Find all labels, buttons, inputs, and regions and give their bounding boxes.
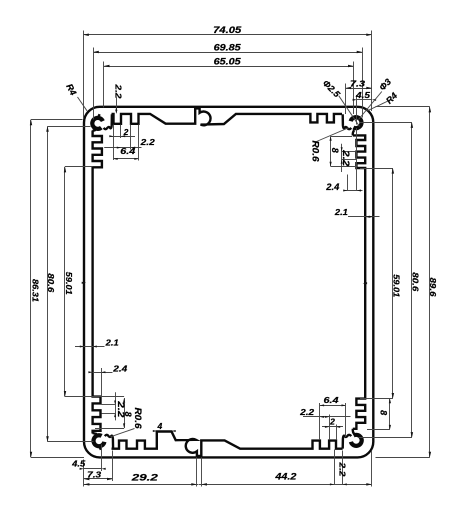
ext 74.05/7.3/4.5 right	[371, 31, 373, 112]
ext 2.2 BL a	[102, 404, 116, 406]
boss TR tail jaw	[343, 114, 352, 129]
dim line 59.01 left	[64, 167, 66, 397]
ext TL tooth1 left	[113, 125, 115, 161]
ext 2.4 right b (boss centre)	[356, 128, 358, 191]
dim line 2.2 BL	[115, 392, 117, 420]
svg-text:6.4: 6.4	[120, 146, 135, 156]
boss BR neck	[353, 429, 355, 434]
boss TR neck	[353, 130, 355, 135]
dim line 8 TR	[330, 136, 332, 166]
dim line 74.05	[83, 34, 372, 36]
ext 2.2 BL b	[102, 413, 116, 415]
screw boss bottom-right (ring)	[351, 435, 362, 446]
svg-text:80.6: 80.6	[46, 273, 56, 292]
svg-text:65.05: 65.05	[214, 57, 242, 68]
ext 80.6 left bottom	[48, 441, 94, 443]
svg-text:8: 8	[330, 148, 340, 153]
ext 65.05 right	[353, 62, 355, 115]
ext 2.2 TR b	[342, 159, 357, 161]
svg-text:2.2: 2.2	[338, 461, 348, 476]
screw boss top-left (ring)	[92, 118, 103, 129]
svg-text:2.2: 2.2	[341, 149, 351, 166]
dim line 80.6 left	[47, 126, 49, 442]
boss BL link to left wall	[93, 433, 97, 434]
dim line 6.4 BR	[320, 405, 346, 407]
svg-text:6.4: 6.4	[324, 395, 339, 405]
dim line 4.5 top	[357, 99, 372, 101]
boss TL link to left wall	[93, 130, 96, 131]
dim line 2.4 right	[344, 190, 363, 192]
boss TL tail jaw	[104, 114, 112, 129]
svg-text:4.5: 4.5	[71, 458, 85, 468]
dim line 2 TL	[111, 136, 135, 138]
svg-text:2.4: 2.4	[112, 364, 127, 374]
bottom wall inner	[112, 432, 343, 456]
dim line 2.2 TL	[104, 147, 141, 149]
ext 59.01 right top	[360, 168, 393, 170]
top wall inner	[112, 108, 343, 125]
tick arrow right wall mid	[363, 282, 368, 284]
svg-text:86.31: 86.31	[30, 279, 40, 302]
leader R0.6 bottom-left	[111, 429, 135, 437]
ext 8 BR bottom	[367, 429, 390, 431]
svg-text:69.85: 69.85	[214, 42, 242, 53]
ext 80.6 left top	[48, 126, 91, 128]
dim line 2.2 BR	[303, 416, 351, 418]
svg-text:2.1: 2.1	[334, 207, 348, 217]
screw boss bottom-left (ring)	[94, 435, 105, 446]
svg-text:59.01: 59.01	[64, 272, 74, 295]
ext 80.6 right top	[360, 122, 412, 124]
ext 2.4 right a	[347, 175, 349, 191]
dim line 44.2	[199, 484, 372, 486]
dim line 4.5 bottom	[84, 468, 102, 470]
dim line 80.6 right	[411, 122, 413, 437]
svg-text:R0.6: R0.6	[310, 141, 320, 163]
ext bottom left edge	[83, 460, 85, 487]
dim line 65.05	[104, 66, 354, 68]
ext 69.85 right	[362, 48, 364, 118]
ext BR boss side	[345, 403, 347, 437]
ext 59.01 left top	[65, 166, 93, 168]
dim 2.2 top wall thickness	[116, 98, 118, 113]
ext 4.5 bottom (boss centre)	[101, 445, 103, 472]
ext TL tooth2 left	[130, 125, 132, 150]
svg-text:59.01: 59.01	[392, 274, 402, 297]
dim line 2.1 left	[75, 346, 105, 348]
svg-text:7.3: 7.3	[87, 469, 101, 479]
ext 86.31 top (boss centre)	[31, 119, 83, 121]
boss BL tail jaw	[105, 435, 113, 449]
dim line 69.85	[93, 52, 362, 54]
ext 8 TR bottom	[331, 166, 357, 168]
screw boss top-right (ring)	[351, 117, 362, 128]
dim line 86.31	[30, 120, 32, 458]
ext BR tooth2 left	[329, 415, 331, 441]
svg-text:2.2: 2.2	[116, 400, 126, 417]
ext 4.5 top (boss centre)	[356, 95, 358, 125]
ext 89.6 bottom	[376, 457, 430, 459]
svg-text:74.05: 74.05	[213, 25, 242, 36]
ext 8 BL bottom	[95, 428, 124, 430]
svg-text:2.2: 2.2	[299, 407, 314, 417]
leader phi3	[359, 92, 382, 120]
svg-text:7.3: 7.3	[350, 78, 365, 88]
svg-text:2: 2	[329, 417, 335, 427]
outer wall contour	[84, 107, 373, 458]
ext 7.3 bottom	[112, 451, 114, 482]
ext TL tooth1 right	[120, 125, 122, 139]
svg-text:89.6: 89.6	[428, 278, 438, 297]
dim line 4 step	[157, 430, 172, 432]
dim line 2 BR	[322, 426, 343, 428]
leader R4 top-left	[78, 97, 88, 111]
svg-text:2.1: 2.1	[105, 338, 119, 348]
ext channel mouth right	[201, 457, 203, 486]
ext 69.85 left	[93, 48, 95, 120]
ext BR tooth1 right	[319, 403, 321, 440]
dim line 8 BR outside	[389, 399, 391, 430]
ext 7.3 top left	[345, 84, 347, 115]
boss BL neck	[100, 447, 101, 449]
svg-text:2.2: 2.2	[140, 137, 155, 147]
svg-text:R0.6: R0.6	[133, 408, 143, 430]
ext BR tooth2 right	[336, 425, 338, 441]
dim line 8 BL	[124, 398, 126, 428]
svg-text:44.2: 44.2	[274, 471, 297, 482]
dim line 2.4 left	[93, 372, 113, 374]
ext 80.6 right bottom	[358, 437, 412, 439]
dim line 2.2 TR	[341, 144, 343, 172]
right wall inner	[353, 135, 365, 428]
ext TL tooth2 right	[138, 125, 140, 161]
dim line 6.4 TL	[114, 158, 139, 160]
leader R4 top-right	[367, 101, 388, 111]
left wall inner	[93, 131, 102, 434]
ext 59.01 left bottom / comb 8	[65, 396, 124, 398]
ext 86.31 bottom	[31, 457, 84, 459]
dim line 7.3 bottom	[84, 478, 113, 480]
svg-text:80.6: 80.6	[411, 272, 421, 291]
leader phi2.5	[339, 96, 360, 127]
dim line 59.01 right	[392, 168, 394, 399]
dim line 89.6	[429, 107, 431, 458]
dim line 2.1 right	[348, 216, 380, 218]
ext 65.05 left	[103, 62, 105, 108]
svg-text:8: 8	[379, 410, 389, 415]
ext 2.2 TR a	[342, 151, 357, 153]
ext 59.01 right bottom	[360, 398, 393, 400]
ext 2.2 bottom a	[334, 450, 336, 485]
boss TL neck	[99, 114, 100, 116]
svg-text:4.5: 4.5	[355, 90, 370, 100]
boss BR tail jaw	[343, 435, 352, 449]
tick arrow left wall mid	[82, 282, 87, 284]
dim line 7.3 top	[346, 88, 372, 90]
leader R0.6 top-right	[317, 128, 349, 142]
svg-text:29.2: 29.2	[130, 472, 158, 483]
ext 2.4 left	[101, 368, 103, 396]
ext 8 TR top	[331, 136, 352, 138]
ext bottom right edge	[371, 451, 373, 487]
ext channel mouth left	[196, 457, 198, 486]
svg-text:2.4: 2.4	[325, 182, 339, 192]
ext 2.2 bottom b	[342, 451, 344, 485]
dim line 29.2	[84, 484, 198, 486]
svg-text:4: 4	[157, 421, 163, 431]
ext 89.6 top	[376, 106, 430, 108]
ext 74.05 left	[83, 31, 85, 120]
svg-text:2: 2	[123, 127, 129, 137]
svg-text:2.2: 2.2	[113, 83, 123, 98]
